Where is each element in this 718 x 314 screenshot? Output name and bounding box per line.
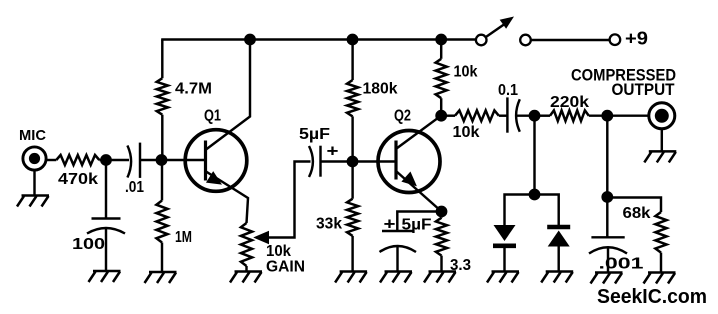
- resistor 68k: [655, 212, 666, 253]
- wire to right diode: [535, 195, 559, 228]
- wire rail to 10k vertical: [440, 40, 442, 59]
- wire rail to 180k: [351, 40, 353, 81]
- diode D1: [493, 225, 516, 272]
- wire 10k to 0.1 cap: [499, 114, 508, 116]
- wire 33k to ground: [351, 236, 353, 272]
- transistor Q2: [353, 131, 441, 193]
- svg-text:10k: 10k: [453, 124, 480, 141]
- wire emitter node to 5uF bypass: [397, 212, 441, 232]
- svg-text:Q2: Q2: [394, 108, 411, 125]
- wire node to .01 cap: [106, 159, 129, 161]
- resistor 470k: [56, 155, 99, 165]
- wire node down to 100 cap: [105, 160, 107, 219]
- switch pole circle: [476, 35, 487, 46]
- capacitor 5uF bypass: [380, 231, 417, 272]
- wire 470k to node: [99, 159, 110, 161]
- ground under 5uF bypass: [380, 272, 412, 283]
- node diode junction: [529, 189, 541, 201]
- wire collector node to 10k horizontal: [441, 114, 455, 116]
- svg-text:.01: .01: [125, 179, 144, 196]
- svg-text:68k: 68k: [623, 205, 651, 222]
- svg-text:10k: 10k: [454, 64, 478, 81]
- wire emitter node to 3.3: [440, 212, 442, 218]
- pot wiper arrow: [255, 162, 311, 244]
- svg-text:MIC: MIC: [19, 127, 46, 144]
- ground under .001: [591, 273, 623, 284]
- svg-text:OUTPUT: OUTPUT: [612, 80, 676, 99]
- resistor 3.3: [436, 218, 447, 256]
- wire base node up to 4.7M: [161, 115, 163, 160]
- resistor 180k: [347, 80, 358, 116]
- wire Q1 emitter: [206, 172, 248, 224]
- node 180k on rail: [347, 34, 359, 46]
- node Q2 collector junction: [435, 110, 447, 122]
- wire base node down to 1M: [161, 160, 163, 201]
- resistor 220k: [550, 110, 589, 121]
- wire node to 220k: [535, 114, 551, 116]
- wire 220k node down to 68k/.001: [606, 116, 608, 197]
- node after 470k: [100, 154, 112, 166]
- svg-text:+9: +9: [625, 29, 648, 49]
- resistor 33k: [347, 199, 358, 236]
- svg-text:Q1: Q1: [204, 108, 221, 125]
- wire 4.7M to top rail: [161, 40, 163, 79]
- wire output jack to ground: [661, 128, 663, 151]
- svg-text:0.1: 0.1: [498, 82, 518, 99]
- top supply rail wire: [161, 38, 476, 40]
- node 10k on rail: [435, 34, 447, 46]
- wire 3.3 to ground: [440, 256, 442, 272]
- wire base node down to 33k: [351, 162, 353, 199]
- capacitor .001: [589, 197, 627, 273]
- switch throw circle: [520, 35, 531, 46]
- MIC input jack: [23, 147, 46, 170]
- switch blade with arrow: [486, 17, 515, 38]
- wire .01 cap to base node: [140, 159, 162, 161]
- capacitor .01: [127, 143, 140, 178]
- wire MIC to 470k: [46, 159, 57, 161]
- wire 0.1 node down to diodes: [533, 116, 535, 195]
- wire pot to ground: [245, 266, 247, 272]
- wire MIC jack to ground stem: [33, 170, 35, 196]
- svg-text:.001: .001: [599, 256, 644, 273]
- svg-text:GAIN: GAIN: [266, 259, 305, 276]
- ground under MIC: [17, 196, 49, 207]
- svg-text:10k: 10k: [266, 243, 291, 260]
- svg-text:100: 100: [72, 236, 105, 253]
- svg-text:5µF: 5µF: [402, 217, 432, 234]
- node 68k junction: [601, 191, 613, 203]
- ground under 100 cap: [89, 271, 121, 282]
- wire switch to +9 terminal: [531, 39, 609, 41]
- wire 0.1 cap to node: [517, 114, 535, 116]
- ground under D2: [541, 272, 573, 283]
- wire Q2 collector: [397, 116, 442, 149]
- svg-text:5µF: 5µF: [299, 126, 330, 143]
- wire Q2 emitter: [397, 172, 442, 212]
- node Q1 collector on rail: [244, 34, 256, 46]
- wire node to 68k: [607, 198, 661, 213]
- capacitor 5uF coupling: [309, 146, 321, 177]
- node after 0.1: [529, 110, 541, 122]
- wire to left diode: [505, 195, 535, 226]
- wire 220k to node: [589, 114, 608, 116]
- svg-text:33k: 33k: [316, 216, 342, 233]
- ground under 3.3: [424, 272, 456, 283]
- wire 68k to ground: [660, 253, 662, 273]
- COMPRESSED OUTPUT jack: [649, 103, 675, 129]
- resistor 1M: [156, 201, 167, 243]
- ground under 33k: [335, 272, 367, 283]
- ground under 1M: [145, 272, 177, 283]
- wire node to output jack: [607, 114, 649, 116]
- svg-text:SeekIC.com: SeekIC.com: [597, 286, 707, 308]
- wire 5uF to Q2 base node: [321, 160, 353, 162]
- transistor Q1: [162, 130, 247, 192]
- node Q2 base junction: [347, 156, 359, 168]
- svg-text:4.7M: 4.7M: [175, 81, 212, 98]
- node Q2 emitter junction: [436, 206, 448, 218]
- svg-text:470k: 470k: [58, 171, 98, 188]
- node Q1 base junction: [156, 154, 168, 166]
- resistor 4.7M: [157, 78, 168, 115]
- resistor 10k vertical: [436, 59, 447, 98]
- ground under pot: [230, 272, 262, 283]
- ground under D1: [487, 272, 519, 283]
- wire 180k to base node: [351, 116, 353, 161]
- capacitor 0.1: [507, 97, 519, 132]
- +9 terminal circle: [610, 34, 621, 45]
- svg-text:+: +: [327, 142, 339, 161]
- svg-text:1M: 1M: [175, 229, 192, 246]
- potentiometer 10k GAIN: [241, 223, 252, 266]
- ground under output jack: [644, 151, 676, 162]
- wire 1M to ground: [161, 243, 163, 273]
- ground under 68k: [644, 273, 676, 284]
- svg-text:220k: 220k: [550, 94, 589, 111]
- svg-text:+: +: [384, 215, 396, 234]
- node after 220k: [601, 110, 613, 122]
- capacitor 100: [87, 219, 125, 272]
- diode D2: [547, 227, 570, 272]
- resistor 10k horizontal: [455, 110, 499, 121]
- svg-text:180k: 180k: [363, 81, 398, 98]
- wire Q1 collector: [206, 40, 250, 150]
- wire 10k to collector node: [440, 98, 442, 116]
